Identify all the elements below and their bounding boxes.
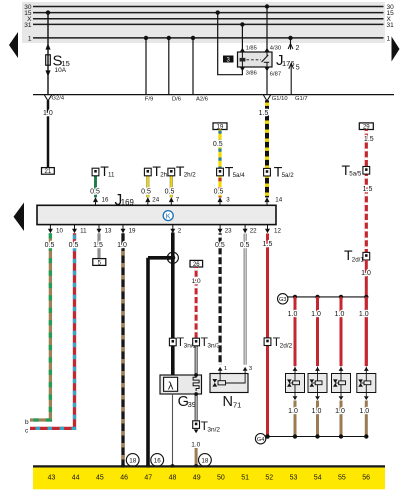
svg-text:1.0: 1.0: [335, 408, 345, 415]
svg-text:31: 31: [387, 22, 395, 29]
svg-text:F/9: F/9: [145, 97, 153, 103]
svg-text:1.0: 1.0: [288, 408, 298, 415]
svg-text:0.5: 0.5: [69, 242, 79, 249]
svg-text:169: 169: [121, 198, 134, 207]
svg-text:1: 1: [28, 35, 32, 42]
svg-text:23: 23: [225, 228, 232, 235]
svg-text:0.5: 0.5: [45, 242, 55, 249]
svg-text:46: 46: [120, 474, 128, 481]
svg-text:52: 52: [265, 474, 273, 481]
svg-text:1.0: 1.0: [311, 311, 321, 318]
svg-text:2: 2: [296, 45, 300, 52]
svg-text:3/86: 3/86: [246, 71, 257, 77]
svg-text:A2/6: A2/6: [196, 97, 208, 103]
svg-text:22: 22: [250, 228, 257, 235]
svg-text:10: 10: [56, 228, 63, 235]
svg-text:G2/4: G2/4: [52, 96, 65, 102]
svg-text:11: 11: [108, 172, 115, 179]
svg-text:N: N: [223, 394, 233, 410]
svg-text:18: 18: [201, 457, 209, 464]
svg-text:5a/2: 5a/2: [282, 172, 295, 179]
svg-text:1.5: 1.5: [363, 186, 373, 193]
svg-text:λ: λ: [168, 381, 174, 393]
svg-text:18: 18: [129, 457, 137, 464]
svg-text:7: 7: [176, 197, 180, 204]
svg-text:31: 31: [24, 22, 32, 29]
svg-text:1.0: 1.0: [191, 442, 200, 449]
svg-text:47: 47: [144, 474, 152, 481]
svg-text:16: 16: [102, 196, 109, 203]
svg-text:21: 21: [45, 169, 52, 175]
svg-text:2h/2: 2h/2: [184, 172, 197, 179]
svg-text:51: 51: [241, 474, 249, 481]
svg-text:44: 44: [72, 474, 80, 481]
svg-text:5a/4: 5a/4: [233, 172, 246, 179]
svg-text:1.0: 1.0: [361, 270, 371, 277]
svg-text:50: 50: [217, 474, 225, 481]
svg-text:43: 43: [48, 474, 56, 481]
svg-text:1.0: 1.0: [43, 110, 53, 117]
svg-text:0.5: 0.5: [165, 188, 175, 195]
svg-text:1/85: 1/85: [246, 45, 257, 51]
svg-text:55: 55: [338, 474, 346, 481]
svg-text:2d/1: 2d/1: [352, 257, 365, 264]
svg-text:1.5: 1.5: [93, 242, 103, 249]
svg-text:14: 14: [275, 197, 282, 204]
svg-text:4/30: 4/30: [270, 45, 281, 51]
svg-text:3n/3: 3n/3: [207, 343, 220, 350]
svg-text:53: 53: [290, 474, 298, 481]
svg-text:10A: 10A: [55, 67, 67, 74]
svg-text:2d/2: 2d/2: [280, 343, 293, 350]
svg-text:13: 13: [105, 228, 112, 235]
svg-text:3: 3: [226, 197, 230, 204]
svg-text:1.5: 1.5: [364, 136, 374, 143]
svg-text:3n/2: 3n/2: [207, 427, 220, 434]
svg-text:K: K: [166, 211, 171, 220]
svg-text:G4: G4: [257, 437, 264, 443]
svg-text:0.5: 0.5: [213, 141, 223, 148]
svg-text:6/87: 6/87: [270, 71, 281, 77]
svg-text:19: 19: [129, 228, 136, 235]
svg-text:3: 3: [249, 366, 252, 372]
svg-text:0.5: 0.5: [240, 242, 250, 249]
svg-text:12: 12: [274, 228, 281, 235]
svg-text:1.0: 1.0: [359, 408, 369, 415]
svg-text:0.5: 0.5: [141, 188, 151, 195]
svg-text:0.5: 0.5: [214, 188, 224, 195]
svg-text:0.5: 0.5: [215, 242, 225, 249]
svg-text:D/6: D/6: [172, 97, 181, 103]
svg-text:1: 1: [224, 366, 227, 372]
svg-text:G3: G3: [279, 297, 286, 303]
svg-text:5: 5: [296, 65, 300, 72]
svg-text:1.0: 1.0: [288, 311, 298, 318]
svg-text:24: 24: [152, 197, 159, 204]
svg-text:1.0: 1.0: [359, 311, 369, 318]
svg-text:1.5: 1.5: [263, 241, 273, 248]
svg-text:0.5: 0.5: [90, 188, 100, 195]
svg-text:71: 71: [233, 400, 241, 409]
svg-text:1: 1: [387, 35, 391, 42]
svg-text:1.0: 1.0: [192, 278, 201, 285]
svg-text:b: b: [25, 419, 29, 426]
svg-text:1.5: 1.5: [259, 110, 269, 117]
svg-text:11: 11: [80, 228, 87, 235]
svg-text:48: 48: [169, 474, 177, 481]
svg-text:45: 45: [96, 474, 104, 481]
svg-text:16: 16: [154, 457, 162, 464]
svg-text:54: 54: [314, 474, 322, 481]
svg-text:G1/7: G1/7: [295, 96, 308, 102]
svg-text:1.0: 1.0: [335, 311, 345, 318]
svg-text:1.0: 1.0: [117, 242, 127, 249]
svg-text:56: 56: [362, 474, 370, 481]
svg-text:5a/5: 5a/5: [349, 171, 362, 178]
svg-text:G1/10: G1/10: [272, 96, 288, 102]
svg-text:49: 49: [193, 474, 201, 481]
svg-text:1.0: 1.0: [312, 408, 322, 415]
svg-text:2: 2: [178, 228, 182, 235]
